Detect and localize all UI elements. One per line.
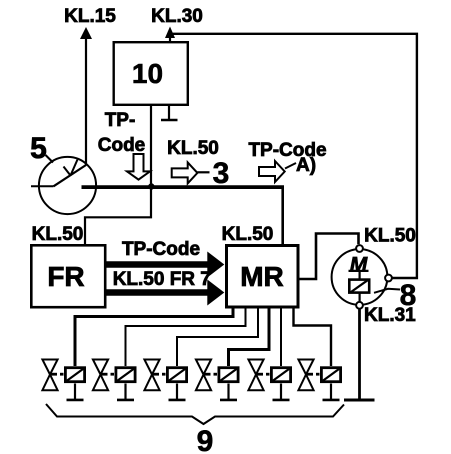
svg-text:MR: MR [240,261,284,292]
svg-text:10: 10 [132,58,163,89]
svg-text:TP-Code: TP-Code [122,239,200,260]
svg-text:A): A) [296,155,316,176]
svg-text:KL.50: KL.50 [364,226,416,247]
svg-text:KL.15: KL.15 [64,6,116,27]
svg-text:3: 3 [213,157,230,190]
svg-text:KL.30: KL.30 [151,6,203,27]
svg-text:KL.31: KL.31 [364,305,416,326]
svg-text:KL.50: KL.50 [32,224,84,245]
svg-text:KL.50: KL.50 [222,224,274,245]
svg-text:KL.50 FR 7: KL.50 FR 7 [113,269,211,290]
svg-text:TP-: TP- [105,110,136,131]
svg-text:5: 5 [30,132,47,165]
svg-text:Code: Code [98,135,146,156]
svg-text:KL.50: KL.50 [167,138,219,159]
svg-text:9: 9 [197,425,214,454]
svg-text:FR: FR [47,261,84,292]
